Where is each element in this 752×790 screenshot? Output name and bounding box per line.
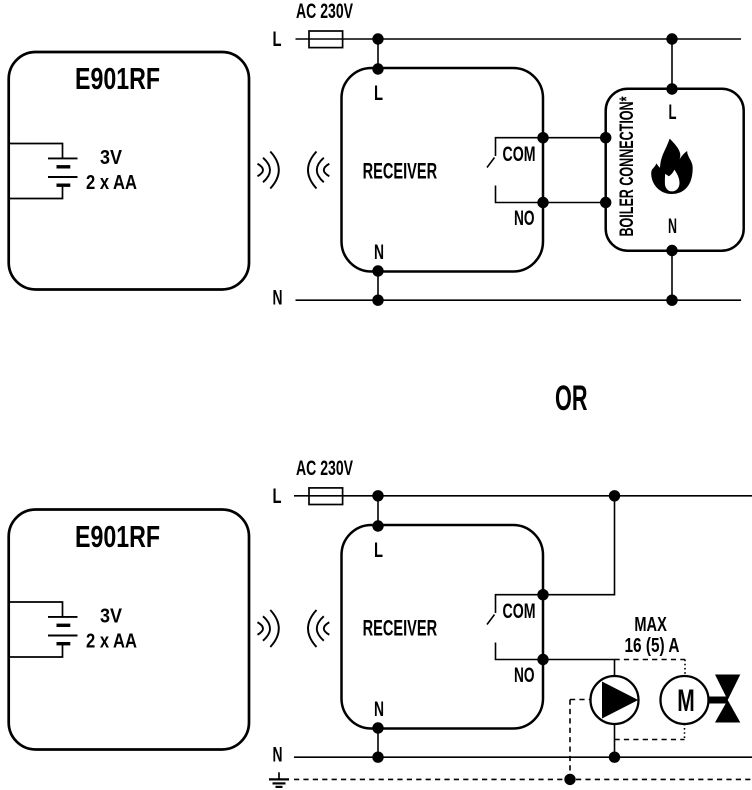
svg-text:L: L — [273, 484, 282, 508]
svg-text:BOILER CONNECTION*: BOILER CONNECTION* — [616, 96, 638, 236]
svg-text:RECEIVER: RECEIVER — [363, 158, 438, 183]
svg-text:AC 230V: AC 230V — [296, 0, 353, 23]
svg-text:AC 230V: AC 230V — [296, 456, 353, 480]
svg-text:L: L — [273, 27, 282, 51]
svg-text:N: N — [374, 697, 384, 721]
svg-text:NO: NO — [514, 663, 535, 687]
svg-text:L: L — [669, 100, 677, 124]
svg-text:OR: OR — [555, 379, 588, 418]
svg-text:L: L — [374, 538, 383, 562]
svg-text:3V: 3V — [100, 605, 122, 628]
svg-text:3V: 3V — [100, 146, 122, 169]
svg-text:COM: COM — [503, 142, 536, 166]
svg-text:E901RF: E901RF — [75, 519, 160, 554]
svg-text:MAX: MAX — [634, 614, 667, 636]
svg-text:N: N — [273, 286, 283, 310]
svg-text:2 x AA: 2 x AA — [86, 630, 137, 653]
svg-text:2 x AA: 2 x AA — [86, 171, 137, 194]
svg-text:RECEIVER: RECEIVER — [363, 615, 438, 640]
svg-text:N: N — [273, 743, 283, 767]
svg-text:E901RF: E901RF — [75, 61, 160, 96]
svg-text:N: N — [374, 240, 384, 264]
svg-text:16 (5) A: 16 (5) A — [625, 635, 680, 657]
svg-text:N: N — [668, 214, 677, 238]
svg-text:L: L — [374, 81, 383, 105]
svg-text:M: M — [677, 682, 695, 718]
svg-text:COM: COM — [503, 599, 536, 623]
svg-text:NO: NO — [514, 206, 535, 230]
